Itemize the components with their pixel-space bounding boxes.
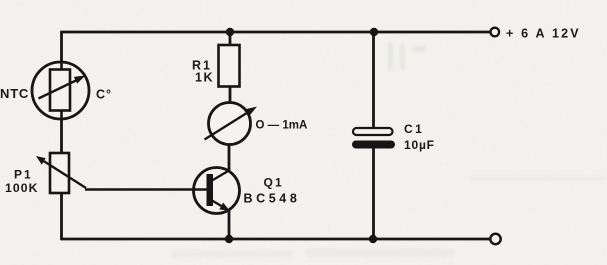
wire: R1 / meter branch vertical — [229, 32, 232, 104]
junction at emitter bottom — [225, 235, 233, 243]
svg-text:Q1: Q1 — [264, 176, 284, 190]
resistor R1 — [219, 45, 240, 87]
wire: meter to Q1 collector — [228, 143, 231, 172]
svg-text:1K: 1K — [195, 71, 214, 85]
svg-text:O — 1mA: O — 1mA — [256, 120, 308, 132]
junction at C1 top — [370, 28, 378, 36]
wire: base from P1 wiper — [85, 188, 207, 190]
wire: left vertical rail through NTC and P1 — [60, 32, 63, 239]
wire: Q1 emitter down to bottom rail — [228, 209, 231, 239]
transistor Q1 — [85, 168, 240, 214]
junction at R1 top — [226, 28, 234, 36]
svg-text:100K: 100K — [5, 181, 39, 195]
base bar — [207, 174, 214, 206]
capacitor C1 — [352, 128, 395, 149]
terminal output — [490, 234, 500, 244]
svg-text:P1: P1 — [14, 168, 33, 182]
wire: C1 branch upper segment — [372, 32, 375, 129]
wire: bottom rail to output terminal — [62, 238, 491, 241]
thermistor NTC — [32, 62, 89, 119]
junction at C1 bottom — [369, 235, 377, 243]
svg-text:+ 6 A 12V: + 6 A 12V — [506, 27, 581, 41]
svg-text:NTC: NTC — [0, 86, 29, 101]
potentiometer P1 — [36, 153, 86, 193]
meter M1 0-1mA — [205, 103, 258, 145]
emitter stroke with arrow — [212, 201, 224, 208]
svg-text:BC548: BC548 — [244, 192, 301, 206]
svg-text:10µF: 10µF — [404, 138, 435, 152]
svg-text:C°: C° — [96, 88, 112, 102]
wire: top rail from left corner to + terminal — [62, 31, 491, 34]
svg-text:C1: C1 — [404, 122, 424, 136]
wire: C1 branch lower segment — [372, 148, 375, 239]
collector stroke — [212, 171, 229, 181]
terminal + supply — [491, 28, 500, 37]
